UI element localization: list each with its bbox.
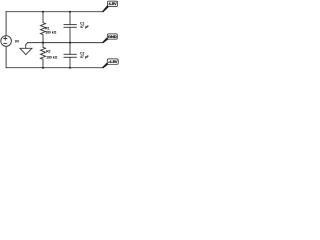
svg-text:47 µF: 47 µF <box>80 25 89 29</box>
svg-text:47 µF: 47 µF <box>80 55 89 59</box>
svg-text:9V: 9V <box>15 40 20 44</box>
svg-text:180 kΩ: 180 kΩ <box>46 56 57 60</box>
svg-text:GND: GND <box>108 34 117 39</box>
svg-text:R2: R2 <box>46 49 50 53</box>
svg-text:180 kΩ: 180 kΩ <box>45 31 56 35</box>
svg-text:4.5V: 4.5V <box>108 1 117 6</box>
svg-text:-4.5V: -4.5V <box>108 59 118 64</box>
